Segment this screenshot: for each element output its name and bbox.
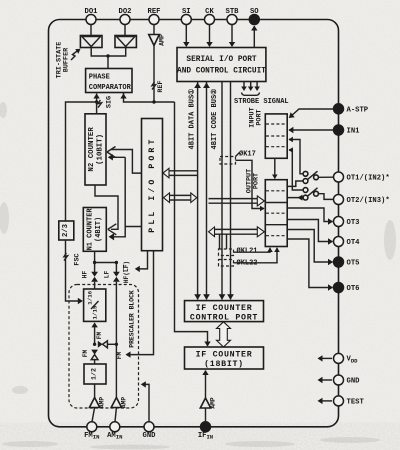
svg-text:CK: CK bbox=[205, 8, 214, 16]
wire FM amp to FM_IN pin bbox=[92, 408, 95, 422]
svg-text:AND CONTROL CIRCUIT: AND CONTROL CIRCUIT bbox=[177, 68, 266, 76]
pin OT5 bbox=[334, 257, 360, 268]
wire junction to 2/3 divider bbox=[66, 102, 97, 221]
pin DO2 bbox=[119, 8, 132, 25]
wire divider output up arrow bbox=[91, 322, 97, 346]
wire output port to OT4 bbox=[287, 220, 333, 245]
FM select wire from PLL port bbox=[116, 251, 154, 360]
svg-text:IN1: IN1 bbox=[347, 128, 361, 136]
svg-text:STROBE SIGNAL: STROBE SIGNAL bbox=[234, 98, 289, 106]
wire output port to OT5 bbox=[287, 230, 333, 266]
FM vertical switch bbox=[82, 350, 98, 360]
svg-text:4BIT DATA BUS①: 4BIT DATA BUS① bbox=[188, 89, 197, 150]
HF switch bbox=[81, 271, 98, 282]
svg-text:HF(LF): HF(LF) bbox=[123, 261, 130, 283]
svg-text:N2 COUNTER: N2 COUNTER bbox=[88, 127, 96, 172]
svg-text:IF COUNTER: IF COUNTER bbox=[196, 351, 253, 360]
svg-text:DO2: DO2 bbox=[119, 8, 132, 16]
switch OT2/IN3 bbox=[287, 147, 333, 200]
pin SO bbox=[249, 8, 259, 25]
wire FM switch to 1/2 divider bbox=[94, 360, 96, 364]
pin VDD bbox=[334, 353, 359, 364]
wire SI to serial port bbox=[183, 25, 189, 48]
wire REF horizontal to phase comparator and down-right bbox=[120, 93, 174, 104]
pin STB bbox=[226, 8, 240, 25]
clock gate K17 bbox=[220, 150, 256, 165]
wire DO2 to buffer2 bbox=[124, 25, 126, 36]
pin FM_IN bbox=[84, 422, 99, 441]
tri-state buffer label bbox=[56, 42, 71, 79]
svg-text:PORT: PORT bbox=[255, 109, 263, 125]
switch OT1/IN2 bbox=[287, 137, 333, 187]
wire arrow to pin VDD bbox=[318, 355, 333, 361]
svg-text:N1 COUNTER: N1 COUNTER bbox=[87, 208, 95, 251]
wire output port to OT6 bbox=[287, 239, 333, 291]
prescaler block dashed outline bbox=[69, 285, 139, 409]
svg-text:1/15: 1/15 bbox=[92, 305, 99, 319]
wire DO1 to buffer1 bbox=[90, 25, 92, 36]
svg-text:(10BIT): (10BIT) bbox=[97, 134, 105, 165]
svg-text:4BIT CODE BUS②: 4BIT CODE BUS② bbox=[210, 89, 219, 150]
wire N2 counter to N1 counter bbox=[95, 185, 118, 235]
svg-text:AMP: AMP bbox=[210, 397, 217, 408]
pin DO1 bbox=[85, 8, 99, 25]
svg-text:OT4: OT4 bbox=[347, 239, 361, 247]
svg-text:TEST: TEST bbox=[347, 399, 365, 407]
svg-text:AMIN: AMIN bbox=[107, 432, 122, 441]
wire PLL port to N2 counter bbox=[107, 147, 142, 174]
pin AM_IN bbox=[107, 422, 122, 441]
N2 counter block bbox=[85, 114, 106, 185]
prescaler divider 1/15 1/16 block bbox=[84, 289, 106, 321]
phase comparator block bbox=[86, 69, 132, 93]
GND sense wire bbox=[141, 381, 149, 422]
svg-text:HF: HF bbox=[81, 271, 88, 279]
data bus line 1 bbox=[194, 82, 201, 300]
pin REF bbox=[148, 8, 161, 25]
svg-text:1/16: 1/16 bbox=[87, 290, 94, 304]
wire output port to OT3 bbox=[287, 208, 333, 225]
wire buffers to phase comparator bbox=[91, 48, 126, 69]
wire A-STP to input port bbox=[289, 109, 334, 118]
FM input amp bbox=[89, 397, 105, 408]
LF switch bbox=[103, 271, 120, 282]
wire 1/2 divider to FM amp bbox=[94, 384, 96, 398]
svg-text:SI: SI bbox=[182, 8, 191, 16]
IF input amp bbox=[200, 397, 216, 408]
wire REF amp down bbox=[152, 46, 165, 103]
tri-state buffer 1 bbox=[80, 36, 102, 48]
divider 2/3 block bbox=[59, 221, 74, 240]
wire arrow to pin GND bbox=[318, 377, 333, 383]
IC outline border bbox=[49, 20, 339, 427]
svg-text:FM: FM bbox=[82, 350, 89, 358]
svg-text:FMIN: FMIN bbox=[84, 432, 99, 441]
pin GND_IN bbox=[143, 422, 157, 440]
data bus label bbox=[188, 89, 197, 150]
svg-text:REF: REF bbox=[157, 80, 165, 92]
svg-text:OT6: OT6 bbox=[347, 285, 360, 293]
svg-text:FSC: FSC bbox=[74, 253, 82, 265]
amp below REF pin bbox=[149, 34, 166, 46]
svg-text:A-STP: A-STP bbox=[347, 106, 369, 114]
svg-text:OT3: OT3 bbox=[347, 219, 360, 227]
wire 2/3 to prescaler divider FSC bbox=[66, 240, 83, 304]
svg-text:OT1/(IN2)*: OT1/(IN2)* bbox=[347, 175, 390, 183]
wire arrow to pin TEST bbox=[318, 398, 333, 404]
svg-text:SERIAL I/O PORT: SERIAL I/O PORT bbox=[186, 56, 257, 64]
pin OT2/(IN3)* bbox=[334, 195, 390, 206]
pin OT3 bbox=[334, 217, 360, 228]
data bus line 2 bbox=[203, 82, 210, 300]
wire IF_IN to amp bbox=[205, 408, 207, 422]
output port block bbox=[245, 169, 287, 247]
IF counter 18bit block bbox=[185, 347, 264, 369]
svg-text:PHASE: PHASE bbox=[89, 74, 110, 82]
pin SI bbox=[181, 8, 191, 25]
IF counter control port block bbox=[185, 301, 264, 323]
pin IF_IN bbox=[198, 422, 213, 441]
svg-text:PRESCALER BLOCK: PRESCALER BLOCK bbox=[129, 290, 136, 348]
code bus line 2 bbox=[227, 82, 234, 300]
svg-text:IF COUNTER: IF COUNTER bbox=[196, 304, 253, 313]
wire REF down right side of PLL port to IF counter bbox=[175, 102, 211, 347]
svg-text:CONTROL PORT: CONTROL PORT bbox=[190, 314, 258, 323]
code bus label bbox=[210, 89, 219, 150]
svg-text:VDD: VDD bbox=[347, 355, 359, 364]
FSC lightning label bbox=[64, 253, 82, 266]
svg-text:COMPARATOR: COMPARATOR bbox=[89, 84, 132, 92]
code bus line 1 bbox=[219, 82, 226, 300]
svg-text:PLL I/O PORT: PLL I/O PORT bbox=[147, 137, 157, 233]
N1 counter block bbox=[83, 208, 106, 252]
wire SIG phase comparator to N2 counter bbox=[93, 94, 113, 114]
svg-text:OT5: OT5 bbox=[347, 260, 360, 268]
svg-text:IFIN: IFIN bbox=[198, 432, 213, 441]
svg-text:ØK17: ØK17 bbox=[239, 150, 256, 159]
svg-text:OT2/(IN3)*: OT2/(IN3)* bbox=[347, 197, 390, 205]
pin IN1 bbox=[334, 125, 361, 136]
svg-text:2/3: 2/3 bbox=[62, 224, 70, 237]
bus arrow data-output port bidirectional lower bbox=[209, 227, 265, 249]
pin OT4 bbox=[334, 237, 361, 248]
wire CK to serial port bbox=[206, 25, 212, 48]
wire serial port to SO bbox=[251, 26, 257, 48]
svg-text:STB: STB bbox=[226, 8, 240, 16]
svg-text:FM: FM bbox=[96, 332, 103, 340]
AM line bbox=[115, 282, 117, 398]
svg-text:REF: REF bbox=[148, 8, 161, 16]
svg-text:DO1: DO1 bbox=[85, 8, 99, 16]
svg-text:SIG: SIG bbox=[106, 96, 114, 108]
bus arrow data to output port bbox=[209, 196, 265, 206]
FM horizontal switch bbox=[96, 332, 118, 348]
svg-text:LF: LF bbox=[103, 271, 110, 279]
bus arrow data to PLL port upper bbox=[163, 168, 198, 178]
svg-text:AMP: AMP bbox=[99, 397, 106, 408]
HF(LF) select wire from PLL port bbox=[123, 251, 148, 283]
clock gate KL22 bbox=[219, 259, 258, 268]
IF control port to IF counter hollow arrow bbox=[217, 322, 231, 347]
PLL I/O port block bbox=[142, 119, 163, 251]
svg-text:SO: SO bbox=[250, 8, 259, 16]
svg-text:1/2: 1/2 bbox=[91, 368, 98, 380]
wire K17 to output port bbox=[236, 160, 265, 211]
svg-text:(18BIT): (18BIT) bbox=[204, 359, 244, 369]
clock gate KL21 bbox=[219, 247, 258, 256]
wire PLL port to N2 and N1 bbox=[108, 154, 142, 240]
wire AM amp to AM_IN pin bbox=[115, 408, 116, 422]
svg-text:ØKL21: ØKL21 bbox=[237, 247, 258, 256]
pin OT1/(IN2)* bbox=[334, 172, 390, 183]
serial I/O port and control circuit block bbox=[177, 48, 266, 82]
tri-state buffer 2 bbox=[115, 36, 136, 48]
pin A-STP bbox=[334, 104, 369, 115]
wire KL22 to output port bbox=[234, 248, 280, 263]
svg-text:(4BIT): (4BIT) bbox=[95, 217, 103, 242]
wire REF pin to amp bbox=[153, 25, 155, 35]
tri-state control arrow bbox=[71, 49, 81, 60]
wire IN1 to input port bbox=[288, 127, 333, 133]
strobe signal arrows bbox=[234, 82, 289, 106]
svg-text:BUFFER: BUFFER bbox=[63, 47, 71, 72]
pin GND2 bbox=[334, 375, 361, 386]
input port block bbox=[248, 107, 287, 158]
wire STB to serial port bbox=[229, 25, 235, 48]
divider 1/2 block bbox=[84, 364, 106, 384]
wire HF switch to prescaler divider bbox=[94, 282, 96, 289]
pin OT6 bbox=[334, 283, 360, 294]
svg-text:AMP: AMP bbox=[121, 397, 128, 408]
wire input port to output port bbox=[272, 158, 278, 179]
svg-text:AMP: AMP bbox=[159, 34, 166, 46]
pin CK bbox=[205, 8, 215, 25]
AM input amp bbox=[111, 397, 127, 408]
wire N1 counter to HF/LF junction bbox=[93, 251, 118, 272]
svg-text:GND: GND bbox=[347, 378, 361, 386]
wire IF amp to IF counter bbox=[202, 370, 208, 398]
bus arrow data to PLL port bidirectional bbox=[164, 193, 197, 203]
pin TEST bbox=[334, 396, 365, 407]
svg-text:PORT: PORT bbox=[252, 173, 260, 189]
wire KL21 to output port bbox=[234, 248, 273, 253]
svg-text:GND: GND bbox=[143, 432, 157, 440]
